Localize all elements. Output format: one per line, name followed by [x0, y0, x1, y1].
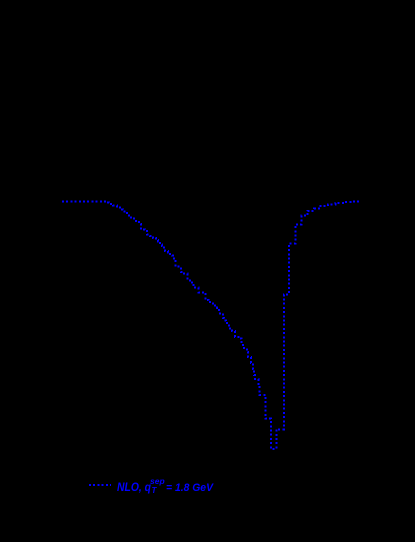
legend text: NLO, qT^sep = 1.8 GeV — [117, 476, 215, 495]
NLO qT spectrum dotted histogram curve — [62, 202, 360, 449]
svg-text:NLO, q: NLO, q — [117, 482, 151, 494]
svg-text:= 1.8 GeV: = 1.8 GeV — [166, 482, 215, 494]
legend dotted line sample — [89, 484, 111, 486]
svg-text:sep: sep — [150, 476, 165, 486]
